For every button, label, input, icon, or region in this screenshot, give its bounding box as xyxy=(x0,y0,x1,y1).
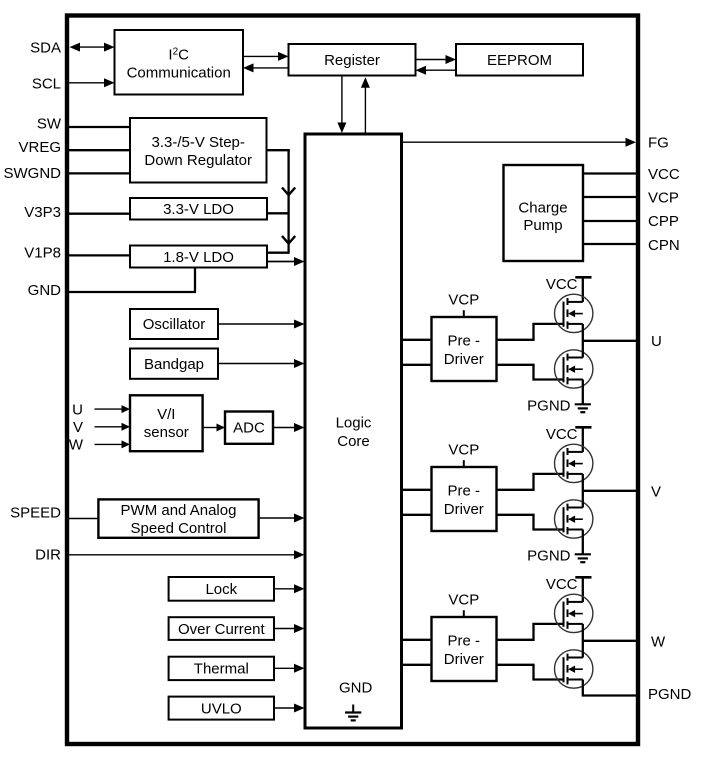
wire half-bridge middle W xyxy=(582,624,584,658)
svg-text:Logic: Logic xyxy=(336,414,372,431)
high-side MOSFET V xyxy=(555,444,593,482)
svg-text:V: V xyxy=(73,419,83,436)
svg-text:VREG: VREG xyxy=(18,139,61,156)
svg-text:Driver: Driver xyxy=(444,501,484,518)
block EEPROM xyxy=(456,44,583,76)
wire half-bridge middle V xyxy=(582,474,584,508)
svg-text:VCC: VCC xyxy=(546,426,578,443)
wire into 1.8-V LDO xyxy=(267,252,289,254)
low-side MOSFET U xyxy=(555,350,593,388)
svg-text:GND: GND xyxy=(339,680,373,697)
svg-text:V1P8: V1P8 xyxy=(24,244,61,261)
svg-text:SDA: SDA xyxy=(30,39,61,56)
wire Register to Logic Core xyxy=(341,76,343,124)
block I2C Communication xyxy=(115,30,244,95)
svg-text:U: U xyxy=(651,333,662,350)
wire pre-driver W high-side gate xyxy=(497,624,564,640)
wire Logic Core to pre-driver W input 1 xyxy=(402,639,432,641)
svg-text:SPEED: SPEED xyxy=(10,505,61,522)
block Over Current xyxy=(169,617,274,640)
svg-text:U: U xyxy=(72,401,83,418)
wire VCC tick V xyxy=(575,426,591,429)
svg-text:PGND: PGND xyxy=(527,398,571,415)
svg-text:3.3-V LDO: 3.3-V LDO xyxy=(163,201,234,218)
high-side MOSFET W xyxy=(555,594,593,632)
block ADC xyxy=(225,412,273,444)
wire CPN xyxy=(583,243,638,245)
svg-text:V: V xyxy=(651,483,661,500)
svg-text:Pump: Pump xyxy=(523,217,562,234)
wire sense W arrow xyxy=(95,443,123,445)
svg-text:3.3-/5-V Step-: 3.3-/5-V Step- xyxy=(152,134,245,151)
wire Over Current to Logic Core xyxy=(274,628,295,630)
wire VCP xyxy=(583,196,638,198)
svg-text:SCL: SCL xyxy=(32,75,61,92)
IC outer border xyxy=(67,16,638,745)
wire Lock to Logic Core xyxy=(274,588,295,590)
svg-text:VCC: VCC xyxy=(648,166,680,183)
wire 3.3-V LDO output xyxy=(267,212,289,214)
block Oscillator xyxy=(130,309,218,339)
svg-text:V3P3: V3P3 xyxy=(24,204,61,221)
svg-text:Lock: Lock xyxy=(205,581,237,598)
wire SWGND xyxy=(66,172,130,174)
svg-text:ADC: ADC xyxy=(233,420,265,437)
svg-text:V/I: V/I xyxy=(157,406,175,423)
svg-text:FG: FG xyxy=(648,135,669,152)
block Register xyxy=(289,44,416,76)
svg-text:Driver: Driver xyxy=(444,351,484,368)
wire VCC to high-side drain U xyxy=(582,277,584,302)
wire phase output U xyxy=(583,340,638,342)
ground symbol PGND V xyxy=(575,554,591,562)
wire step-down output xyxy=(267,149,290,151)
high-side MOSFET U xyxy=(555,294,593,332)
svg-text:VCP: VCP xyxy=(648,189,679,206)
wire SPEED xyxy=(66,518,98,520)
svg-text:UVLO: UVLO xyxy=(201,700,242,717)
wire PWM to Logic Core xyxy=(259,517,295,519)
svg-text:VCP: VCP xyxy=(448,591,479,608)
wire EEPROM to Register xyxy=(425,69,456,71)
svg-text:Bandgap: Bandgap xyxy=(144,356,204,373)
wire CPP xyxy=(583,220,638,222)
svg-text:Pre -: Pre - xyxy=(448,333,481,350)
wire Bandgap to Logic Core xyxy=(218,363,295,365)
wire Thermal to Logic Core xyxy=(274,667,295,669)
ground symbol Logic Core xyxy=(352,705,354,713)
arrow chain down 1 xyxy=(282,188,295,196)
wire 1.8-V LDO to Logic Core xyxy=(267,261,295,263)
wire sense U arrow xyxy=(95,408,123,410)
wire Register to EEPROM xyxy=(416,59,447,61)
wire low-side source V xyxy=(582,530,584,555)
svg-text:Down Regulator: Down Regulator xyxy=(144,152,252,169)
svg-text:VCP: VCP xyxy=(448,291,479,308)
pre-driver W xyxy=(432,617,497,681)
wire VCC xyxy=(583,172,638,174)
wire VCC tick U xyxy=(575,276,591,279)
wire pre-driver V high-side gate xyxy=(497,474,564,490)
svg-text:VCC: VCC xyxy=(546,276,578,293)
svg-text:Charge: Charge xyxy=(518,200,567,217)
svg-text:Register: Register xyxy=(324,52,380,69)
svg-text:W: W xyxy=(651,633,666,650)
block 3.3-/5-V Step-Down Regulator xyxy=(130,118,267,183)
svg-text:Speed Control: Speed Control xyxy=(131,520,227,537)
pre-driver U xyxy=(432,317,497,381)
svg-text:GND: GND xyxy=(28,282,62,299)
wire Logic Core to pre-driver W input 2 xyxy=(402,664,432,666)
wire pre-driver U high-side gate xyxy=(497,324,564,340)
wire phase output V xyxy=(583,490,638,492)
block Bandgap xyxy=(130,349,218,379)
wire pre-driver W low-side gate xyxy=(497,665,564,680)
svg-text:1.8-V LDO: 1.8-V LDO xyxy=(163,249,234,266)
svg-text:Over Current: Over Current xyxy=(178,621,266,638)
svg-text:Pre -: Pre - xyxy=(448,633,481,650)
svg-text:Oscillator: Oscillator xyxy=(143,316,206,333)
svg-text:sensor: sensor xyxy=(144,424,189,441)
svg-text:SWGND: SWGND xyxy=(4,165,62,182)
wire V1P8 xyxy=(66,254,130,256)
svg-text:Pre -: Pre - xyxy=(448,483,481,500)
wire half-bridge middle U xyxy=(582,324,584,358)
wire Register to I2C xyxy=(253,67,289,69)
svg-text:Driver: Driver xyxy=(444,651,484,668)
svg-text:W: W xyxy=(69,437,84,454)
wire SCL arrow xyxy=(68,82,105,84)
wire Logic Core to pre-driver U input 2 xyxy=(402,364,432,366)
wire V3P3 xyxy=(66,213,130,215)
block UVLO xyxy=(169,697,274,720)
svg-text:PGND: PGND xyxy=(648,686,692,703)
wire VCP stub V xyxy=(463,460,465,467)
wire VCC tick W xyxy=(575,576,591,579)
wire VREG xyxy=(66,149,130,151)
wire SDA bidirectional xyxy=(79,46,105,48)
svg-text:PGND: PGND xyxy=(527,548,571,565)
block Lock xyxy=(169,577,274,601)
wire sense V arrow xyxy=(95,426,123,428)
wire Logic Core to pre-driver U input 1 xyxy=(402,339,432,341)
wire VCC to high-side drain W xyxy=(582,577,584,602)
wire VCP stub W xyxy=(463,610,465,617)
wire UVLO to Logic Core xyxy=(274,707,295,709)
block Thermal xyxy=(169,657,274,680)
wire SW xyxy=(66,126,130,128)
wire regulator chain vertical xyxy=(287,149,289,254)
svg-text:CPN: CPN xyxy=(648,237,680,254)
wire VCC to high-side drain V xyxy=(582,427,584,452)
arrow chain down 2 xyxy=(282,236,295,244)
svg-text:CPP: CPP xyxy=(648,213,679,230)
wire Logic Core to pre-driver V input 1 xyxy=(402,489,432,491)
ground bars Logic Core xyxy=(345,713,361,721)
wire DIR xyxy=(68,554,295,556)
wire pre-driver V low-side gate xyxy=(497,515,564,530)
block PWM and Analog Speed Control xyxy=(98,499,258,537)
svg-text:I2C: I2C xyxy=(168,47,189,64)
svg-text:SW: SW xyxy=(37,116,62,133)
block V/I sensor xyxy=(130,395,203,451)
svg-text:DIR: DIR xyxy=(35,547,61,564)
svg-text:Thermal: Thermal xyxy=(194,661,249,678)
wire Logic Core to pre-driver V input 2 xyxy=(402,514,432,516)
wire Oscillator to Logic Core xyxy=(218,323,295,325)
pre-driver V xyxy=(432,467,497,531)
wire FG xyxy=(402,141,627,143)
svg-text:Core: Core xyxy=(337,433,370,450)
wire VCP stub U xyxy=(463,310,465,317)
wire ADC to Logic Core xyxy=(273,427,295,429)
block Charge Pump xyxy=(504,165,584,261)
wire Logic Core to Register xyxy=(364,87,366,134)
svg-text:VCP: VCP xyxy=(448,441,479,458)
wire GND xyxy=(66,291,196,293)
wire low-side source U xyxy=(582,380,584,405)
wire phase output W xyxy=(583,640,638,642)
wire V/I sensor to ADC xyxy=(203,427,218,429)
wire I2C to Register xyxy=(243,55,279,57)
block Logic Core xyxy=(305,134,402,728)
low-side MOSFET W xyxy=(555,650,593,688)
wire pre-driver U low-side gate xyxy=(497,365,564,380)
low-side MOSFET V xyxy=(555,500,593,538)
svg-text:PWM and Analog: PWM and Analog xyxy=(121,502,237,519)
ground symbol PGND U xyxy=(575,404,591,412)
svg-text:VCC: VCC xyxy=(546,576,578,593)
block 1.8-V LDO xyxy=(130,246,267,268)
svg-text:EEPROM: EEPROM xyxy=(487,52,552,69)
svg-text:Communication: Communication xyxy=(127,64,231,81)
wire low-side source W to PGND pin xyxy=(583,680,638,696)
block 3.3-V LDO xyxy=(130,198,267,220)
